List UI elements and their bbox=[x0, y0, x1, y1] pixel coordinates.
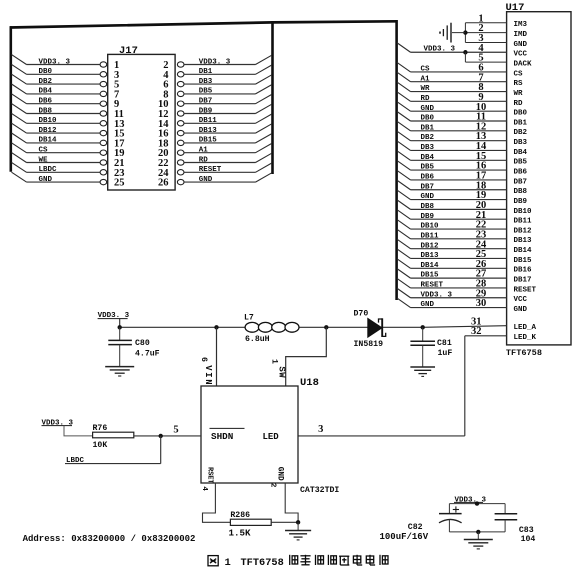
svg-text:R286: R286 bbox=[230, 511, 250, 520]
svg-text:DB3: DB3 bbox=[421, 144, 435, 152]
wire U17 pin 17 (DB6) bbox=[397, 170, 507, 181]
svg-text:DB12: DB12 bbox=[421, 242, 440, 250]
svg-text:IN5819: IN5819 bbox=[354, 340, 384, 349]
wire J17 pin 23 (LBDC) bbox=[12, 162, 125, 178]
svg-text:26: 26 bbox=[158, 178, 169, 189]
ground (C82/C83) bbox=[464, 532, 493, 549]
node bottom junction bbox=[476, 530, 480, 534]
svg-text:VDD3. 3: VDD3. 3 bbox=[199, 58, 231, 66]
net label LBDC wire bbox=[65, 436, 161, 465]
svg-text:DB13: DB13 bbox=[514, 237, 533, 245]
wire left vertical bus bbox=[10, 26, 13, 172]
wire U17 pin 9 (RD) bbox=[397, 92, 507, 103]
wire U18 VIN pin 6 bbox=[199, 327, 217, 386]
svg-text:DB3: DB3 bbox=[199, 78, 213, 86]
svg-text:DB8: DB8 bbox=[514, 188, 528, 196]
svg-text:DB11: DB11 bbox=[514, 218, 533, 226]
svg-text:DB2: DB2 bbox=[514, 129, 528, 137]
svg-text:DB13: DB13 bbox=[421, 252, 440, 260]
svg-text:DB11: DB11 bbox=[421, 232, 440, 240]
wire U17 pin 19 (GND) bbox=[397, 190, 507, 201]
wire U17 pin 29 (VDD3. 3) bbox=[397, 288, 507, 299]
wire U17 pin 18 (DB7) bbox=[397, 180, 507, 191]
svg-text:WE: WE bbox=[39, 156, 49, 164]
svg-text:32: 32 bbox=[471, 326, 482, 337]
net label VDD3.3 (rail) bbox=[98, 312, 130, 327]
ground (C80) bbox=[105, 367, 134, 376]
wire J17 pin 3 (DB0) bbox=[12, 64, 120, 80]
wire U17 pin 6 (CS) bbox=[397, 62, 507, 73]
wire C82/C83 bottom bbox=[449, 531, 505, 533]
IC U18 CAT32TDI body bbox=[201, 377, 339, 495]
wire U18 RSET pin 4 bbox=[200, 467, 230, 522]
svg-text:DB0: DB0 bbox=[421, 115, 435, 123]
wire J17 pin 6 (DB3) bbox=[163, 75, 272, 91]
svg-text:GND: GND bbox=[39, 176, 53, 184]
svg-text:C80: C80 bbox=[135, 339, 150, 348]
svg-text:DB12: DB12 bbox=[514, 227, 533, 235]
svg-text:DB13: DB13 bbox=[199, 127, 218, 135]
wire power rail to U17 pin31 bbox=[120, 326, 507, 328]
wire J17 pin 18 (DB15) bbox=[158, 134, 272, 150]
wire U17 pin 26 (DB14) bbox=[397, 259, 507, 270]
svg-text:DB16: DB16 bbox=[514, 267, 533, 275]
svg-text:CS: CS bbox=[421, 66, 431, 74]
wire J17 pin 5 (DB2) bbox=[12, 74, 120, 90]
wire U17 pin 24 (DB12) bbox=[397, 239, 507, 250]
wire R76 to U18 SHDN pin 5 bbox=[134, 424, 201, 436]
ground (C81) bbox=[410, 367, 435, 376]
svg-text:D70: D70 bbox=[354, 309, 369, 318]
svg-text:DB7: DB7 bbox=[514, 178, 528, 186]
wire J17 pin 19 (CS) bbox=[12, 143, 125, 159]
svg-text:GND: GND bbox=[421, 301, 435, 309]
wire U17 pin 10 (GND) bbox=[397, 102, 507, 113]
IC U17 body bbox=[506, 2, 572, 345]
svg-text:U18: U18 bbox=[300, 377, 319, 389]
wire J17 pin 16 (DB13) bbox=[158, 124, 272, 140]
wire J17 pin 11 (DB8) bbox=[12, 104, 124, 120]
svg-text:1.5K: 1.5K bbox=[229, 527, 252, 538]
diode D70 IN5819 bbox=[354, 309, 386, 349]
wire J17 pin 26 (GND) bbox=[158, 173, 272, 189]
svg-text:GND: GND bbox=[421, 193, 435, 201]
wire J17 pin 22 (RD) bbox=[158, 153, 272, 169]
wire J17 pin 7 (DB4) bbox=[12, 84, 120, 100]
wire U17 pin 22 (DB10) bbox=[397, 220, 507, 231]
wire top bus horizontal bbox=[10, 21, 397, 27]
svg-text:C83: C83 bbox=[519, 526, 534, 535]
wire J17 pin 1 (VDD3. 3) bbox=[12, 55, 120, 71]
net label VDD3.3 (C82/C83) bbox=[454, 496, 487, 504]
svg-text:DB1: DB1 bbox=[199, 68, 213, 76]
svg-text:DB7: DB7 bbox=[199, 98, 213, 106]
svg-text:3: 3 bbox=[318, 424, 323, 435]
wire U17 pins 1-3 tie bbox=[465, 13, 506, 44]
svg-text:DB12: DB12 bbox=[39, 127, 58, 135]
wire J17 pin 25 (GND) bbox=[12, 172, 125, 188]
wire J17 pin 2 (VDD3. 3) bbox=[163, 55, 272, 71]
svg-text:DB2: DB2 bbox=[421, 134, 435, 142]
svg-text:Address: 0x83200000 / 0x832000: Address: 0x83200000 / 0x83200002 bbox=[23, 534, 196, 544]
wire U18 SW pin 1 bbox=[269, 327, 326, 386]
svg-text:DB14: DB14 bbox=[421, 262, 440, 270]
wire J17 pin 13 (DB10) bbox=[12, 113, 125, 129]
svg-text:GND: GND bbox=[514, 41, 528, 49]
ground (U17 pins 1-3), left-pointing bbox=[440, 23, 465, 43]
wire U17 pin 8 (WR) bbox=[397, 82, 507, 93]
svg-text:GND: GND bbox=[275, 467, 283, 481]
svg-text:GND: GND bbox=[421, 105, 435, 113]
svg-text:DB15: DB15 bbox=[199, 137, 218, 145]
svg-text:DB3: DB3 bbox=[514, 139, 528, 147]
wire U17 pin 25 (DB13) bbox=[397, 249, 507, 260]
wire J17 pin 21 (WE) bbox=[12, 153, 125, 169]
svg-text:LED_A: LED_A bbox=[514, 324, 537, 332]
svg-text:DB11: DB11 bbox=[199, 117, 218, 125]
svg-text:DB4: DB4 bbox=[421, 154, 435, 162]
capacitor C81 1uF bbox=[410, 327, 452, 367]
svg-text:DB8: DB8 bbox=[421, 203, 435, 211]
svg-text:IMD: IMD bbox=[514, 31, 528, 39]
svg-text:A1: A1 bbox=[199, 147, 209, 155]
wire U17 pin 7 (A1) bbox=[397, 72, 507, 83]
wire J17 pin 17 (DB14) bbox=[12, 133, 125, 149]
wire J17 pin 20 (A1) bbox=[158, 143, 272, 159]
svg-text:VDD3. 3: VDD3. 3 bbox=[42, 419, 74, 427]
svg-text:LBDC: LBDC bbox=[39, 166, 58, 174]
wire U18 GND pin 2 bbox=[269, 467, 299, 523]
wire U17 pin 14 (DB3) bbox=[397, 141, 507, 152]
svg-text:4.7uF: 4.7uF bbox=[135, 349, 160, 358]
wire middle vertical bus bbox=[271, 21, 274, 174]
svg-text:6: 6 bbox=[199, 357, 208, 362]
svg-text:IM3: IM3 bbox=[514, 21, 528, 29]
svg-text:C81: C81 bbox=[437, 339, 452, 348]
svg-text:GND: GND bbox=[199, 176, 213, 184]
svg-text:DB1: DB1 bbox=[514, 119, 528, 127]
svg-text:GND: GND bbox=[514, 306, 528, 314]
svg-text:DB6: DB6 bbox=[514, 169, 528, 177]
svg-text:DACK: DACK bbox=[514, 60, 533, 68]
node top junction bbox=[475, 501, 479, 505]
svg-text:DB0: DB0 bbox=[514, 110, 528, 118]
svg-text:RSET: RSET bbox=[206, 467, 214, 483]
resistor R286 1.5K bbox=[229, 511, 272, 538]
connector J17 body bbox=[108, 45, 175, 190]
svg-text:CAT32TDI: CAT32TDI bbox=[300, 486, 339, 495]
svg-text:DB1: DB1 bbox=[421, 124, 435, 132]
svg-text:RD: RD bbox=[421, 95, 431, 103]
svg-text:DB10: DB10 bbox=[39, 117, 58, 125]
svg-text:DB6: DB6 bbox=[421, 174, 435, 182]
net label VDD3.3 (R76) bbox=[42, 419, 93, 436]
ground (R286) bbox=[285, 522, 311, 540]
svg-text:104: 104 bbox=[521, 535, 536, 544]
svg-text:DB14: DB14 bbox=[39, 137, 58, 145]
node rail/C81 junction bbox=[421, 325, 425, 329]
wire U17 pin 27 (DB15) bbox=[397, 269, 507, 280]
svg-text:R76: R76 bbox=[93, 424, 108, 433]
svg-text:SW: SW bbox=[276, 366, 286, 378]
svg-text:VIN: VIN bbox=[203, 365, 213, 386]
wire U17 pin 13 (DB2) bbox=[397, 131, 507, 142]
wire J17 pin 14 (DB11) bbox=[158, 114, 272, 130]
svg-text:1: 1 bbox=[225, 557, 231, 569]
svg-text:WR: WR bbox=[514, 90, 524, 98]
svg-text:J17: J17 bbox=[119, 45, 138, 57]
svg-text:6.8uH: 6.8uH bbox=[245, 335, 270, 344]
wire U17 pin 28 (RESET) bbox=[397, 278, 507, 289]
svg-text:A1: A1 bbox=[421, 75, 431, 83]
svg-text:4: 4 bbox=[200, 486, 208, 491]
svg-text:C82: C82 bbox=[408, 523, 423, 532]
svg-text:DB14: DB14 bbox=[514, 247, 533, 255]
wire U17 pin 20 (DB8) bbox=[397, 200, 507, 211]
wire J17 pin 4 (DB1) bbox=[163, 65, 272, 81]
resistor R76 10K bbox=[93, 424, 134, 450]
svg-text:RD: RD bbox=[514, 100, 524, 108]
wire U17 pin 11 (DB0) bbox=[397, 112, 507, 123]
svg-text:25: 25 bbox=[114, 178, 125, 189]
svg-text:DB9: DB9 bbox=[421, 213, 435, 221]
caption figure 1 bbox=[208, 555, 388, 569]
svg-text:DB6: DB6 bbox=[39, 98, 53, 106]
wire J17 pin 15 (DB12) bbox=[12, 123, 125, 139]
svg-text:DB9: DB9 bbox=[514, 198, 528, 206]
svg-text:CS: CS bbox=[39, 147, 49, 155]
svg-text:VCC: VCC bbox=[514, 296, 528, 304]
svg-text:WR: WR bbox=[421, 85, 431, 93]
wire J17 pin 10 (DB7) bbox=[158, 94, 272, 110]
svg-text:10K: 10K bbox=[93, 441, 108, 450]
svg-text:30: 30 bbox=[476, 298, 487, 309]
wire J17 pin 24 (RESET) bbox=[158, 163, 272, 179]
capacitor C82 100uF/16V polarized bbox=[380, 504, 462, 543]
wire U17 pin 12 (DB1) bbox=[397, 121, 507, 132]
svg-text:TFT6758: TFT6758 bbox=[241, 557, 284, 569]
svg-text:DB4: DB4 bbox=[39, 88, 53, 96]
node R286/GND junction bbox=[296, 520, 300, 524]
svg-text:LED_K: LED_K bbox=[514, 334, 537, 342]
wire U17 pin 23 (DB11) bbox=[397, 229, 507, 240]
wire J17 pin 8 (DB5) bbox=[163, 85, 272, 101]
svg-text:DB5: DB5 bbox=[514, 159, 528, 167]
wire U17 pin 30 (GND) bbox=[397, 298, 507, 309]
wire U17 pin 16 (DB5) bbox=[397, 161, 507, 172]
svg-text:RESET: RESET bbox=[514, 286, 537, 294]
svg-text:100uF/16V: 100uF/16V bbox=[380, 532, 429, 542]
svg-text:RESET: RESET bbox=[421, 282, 444, 290]
wire U17 pin 4 (VDD3.3) bbox=[397, 43, 507, 54]
svg-text:1uF: 1uF bbox=[438, 349, 453, 358]
svg-text:SHDN: SHDN bbox=[211, 431, 233, 442]
svg-text:LED: LED bbox=[263, 432, 280, 442]
wire U17 pin 15 (DB4) bbox=[397, 151, 507, 162]
svg-text:DB10: DB10 bbox=[421, 223, 440, 231]
wire J17 pin 12 (DB9) bbox=[158, 104, 272, 120]
node pin4 junction bbox=[463, 50, 467, 54]
svg-text:VDD3. 3: VDD3. 3 bbox=[424, 45, 456, 53]
svg-text:L7: L7 bbox=[244, 314, 254, 323]
svg-text:DB0: DB0 bbox=[39, 68, 53, 76]
node rail/C80 junction bbox=[118, 325, 122, 329]
svg-text:2: 2 bbox=[269, 483, 277, 488]
svg-text:DB5: DB5 bbox=[199, 88, 213, 96]
svg-text:CS: CS bbox=[514, 70, 524, 78]
wire R286 to gnd bbox=[271, 521, 298, 523]
svg-text:RESET: RESET bbox=[199, 166, 222, 174]
node rail/VIN junction bbox=[214, 325, 218, 329]
wire J17 pin 9 (DB6) bbox=[12, 94, 120, 110]
capacitor C83 104 bbox=[495, 504, 536, 545]
wire U17 pin 21 (DB9) bbox=[397, 210, 507, 221]
svg-text:DB2: DB2 bbox=[39, 78, 53, 86]
wire U17 pin 5 tie to pin 4 bbox=[465, 52, 506, 63]
svg-text:DB5: DB5 bbox=[421, 164, 435, 172]
svg-text:DB9: DB9 bbox=[199, 107, 213, 115]
wire right vertical bus bbox=[395, 20, 398, 300]
svg-text:1: 1 bbox=[269, 359, 278, 364]
svg-text:5: 5 bbox=[173, 424, 178, 435]
svg-text:VDD3. 3: VDD3. 3 bbox=[39, 58, 71, 66]
svg-text:U17: U17 bbox=[506, 2, 525, 14]
node rail/SW junction bbox=[324, 325, 328, 329]
svg-text:DB10: DB10 bbox=[514, 208, 533, 216]
svg-text:RS: RS bbox=[514, 80, 524, 88]
inductor L7 6.8uH bbox=[244, 314, 299, 345]
svg-text:VCC: VCC bbox=[514, 51, 528, 59]
node pins 2-3 junction bbox=[463, 30, 467, 34]
wire U17 pin 32 (LED_K) to U18 pin 3 bbox=[298, 326, 507, 436]
svg-text:DB4: DB4 bbox=[514, 149, 528, 157]
svg-text:DB8: DB8 bbox=[39, 107, 53, 115]
U17 internal pin names bbox=[514, 21, 537, 342]
node SHDN junction bbox=[159, 434, 163, 438]
svg-text:DB7: DB7 bbox=[421, 183, 435, 191]
svg-text:DB15: DB15 bbox=[514, 257, 533, 265]
svg-text:RD: RD bbox=[199, 156, 209, 164]
capacitor C80 4.7uF bbox=[108, 327, 159, 366]
wire U17 pin 31 (LED_A) bbox=[471, 316, 482, 327]
svg-text:VDD3. 3: VDD3. 3 bbox=[421, 291, 453, 299]
wire C82/C83 top bbox=[449, 503, 505, 505]
svg-text:DB15: DB15 bbox=[421, 272, 440, 280]
svg-text:TFT6758: TFT6758 bbox=[506, 348, 542, 358]
svg-text:DB17: DB17 bbox=[514, 277, 532, 285]
